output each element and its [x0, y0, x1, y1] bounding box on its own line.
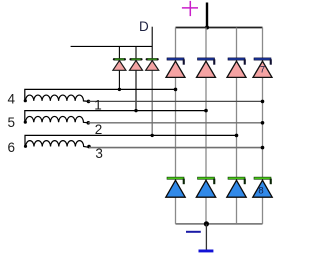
diode VD6 negative (blue): [227, 177, 246, 197]
junction positive lead / rail: [205, 26, 209, 30]
diode VD5 negative (blue): [196, 177, 215, 197]
diode VD1 positive (pink): [166, 58, 185, 78]
diode VD3 positive (pink): [227, 58, 246, 78]
wire small diode column 3: [151, 59, 153, 135]
junction row3 / neutral column: [261, 146, 265, 150]
svg-text:D: D: [139, 19, 149, 34]
wire small diode column 1: [118, 59, 120, 90]
wire row 1 (phase A to neutral): [89, 100, 263, 102]
diode VD8 negative neutral (blue, label 8): [253, 177, 272, 197]
wire positive top rail: [176, 27, 263, 29]
wire row 3 (phase C to neutral): [89, 147, 263, 149]
svg-text:8: 8: [258, 186, 263, 197]
diode D1 small (field diode): [113, 59, 126, 70]
svg-text:6: 6: [8, 140, 16, 155]
svg-text:5: 5: [8, 115, 16, 130]
wire column phase C: [236, 28, 238, 224]
svg-text:2: 2: [95, 122, 103, 137]
svg-text:3: 3: [95, 146, 103, 161]
ground bar: [199, 250, 214, 253]
junction L5 left terminal: [24, 121, 27, 124]
junction bottom rail / ground stem: [204, 221, 209, 226]
junction row1 / neutral column: [261, 100, 265, 104]
junction row L4 / column phase A: [174, 88, 178, 92]
wire D output horizontal: [71, 45, 153, 47]
svg-text:4: 4: [8, 92, 16, 107]
junction row L6 / column phase C: [235, 134, 239, 138]
junction row1/small column 1: [118, 88, 121, 91]
junction L6 right terminal: [87, 145, 91, 149]
wire column phase A (left rectifier leg): [175, 28, 177, 224]
junction row L5 / small column 2: [134, 109, 137, 112]
inductor L4 (stator winding): [25, 89, 176, 101]
junction L5 right terminal: [87, 121, 91, 125]
junction L4 left terminal: [24, 99, 27, 102]
wire ground stem: [205, 224, 207, 250]
junction row L6 / small column 3: [151, 134, 154, 137]
wire small diode column 2: [135, 59, 137, 111]
wire column phase B: [205, 28, 207, 224]
inductor L6 (stator winding): [25, 135, 237, 147]
wire negative bottom rail: [176, 223, 263, 225]
inductor L5 (stator winding): [25, 111, 206, 123]
diode D3 small (field diode): [146, 59, 159, 70]
node + positive terminal: [182, 1, 198, 16]
diode VD7 positive neutral (pink, label 7): [253, 58, 272, 78]
diode VD4 negative (blue): [166, 177, 185, 197]
node D terminal stub: [151, 27, 153, 59]
wire column neutral: [262, 28, 264, 224]
wire stub diode D2 cathode: [135, 46, 137, 58]
node - negative terminal: [186, 231, 201, 233]
wire row 2 (phase B to neutral): [88, 122, 262, 124]
diode VD2 positive (pink): [197, 58, 216, 78]
diode D2 small (field diode): [130, 59, 143, 70]
junction L4 right terminal: [87, 100, 91, 104]
junction row2 / neutral column: [261, 121, 265, 125]
wire positive lead thick: [206, 3, 208, 28]
junction row L5 / column phase B: [204, 109, 208, 113]
junction L6 left terminal: [24, 145, 27, 148]
wire stub diode D1 cathode: [118, 46, 120, 58]
svg-text:7: 7: [260, 64, 265, 75]
svg-text:1: 1: [94, 98, 102, 113]
